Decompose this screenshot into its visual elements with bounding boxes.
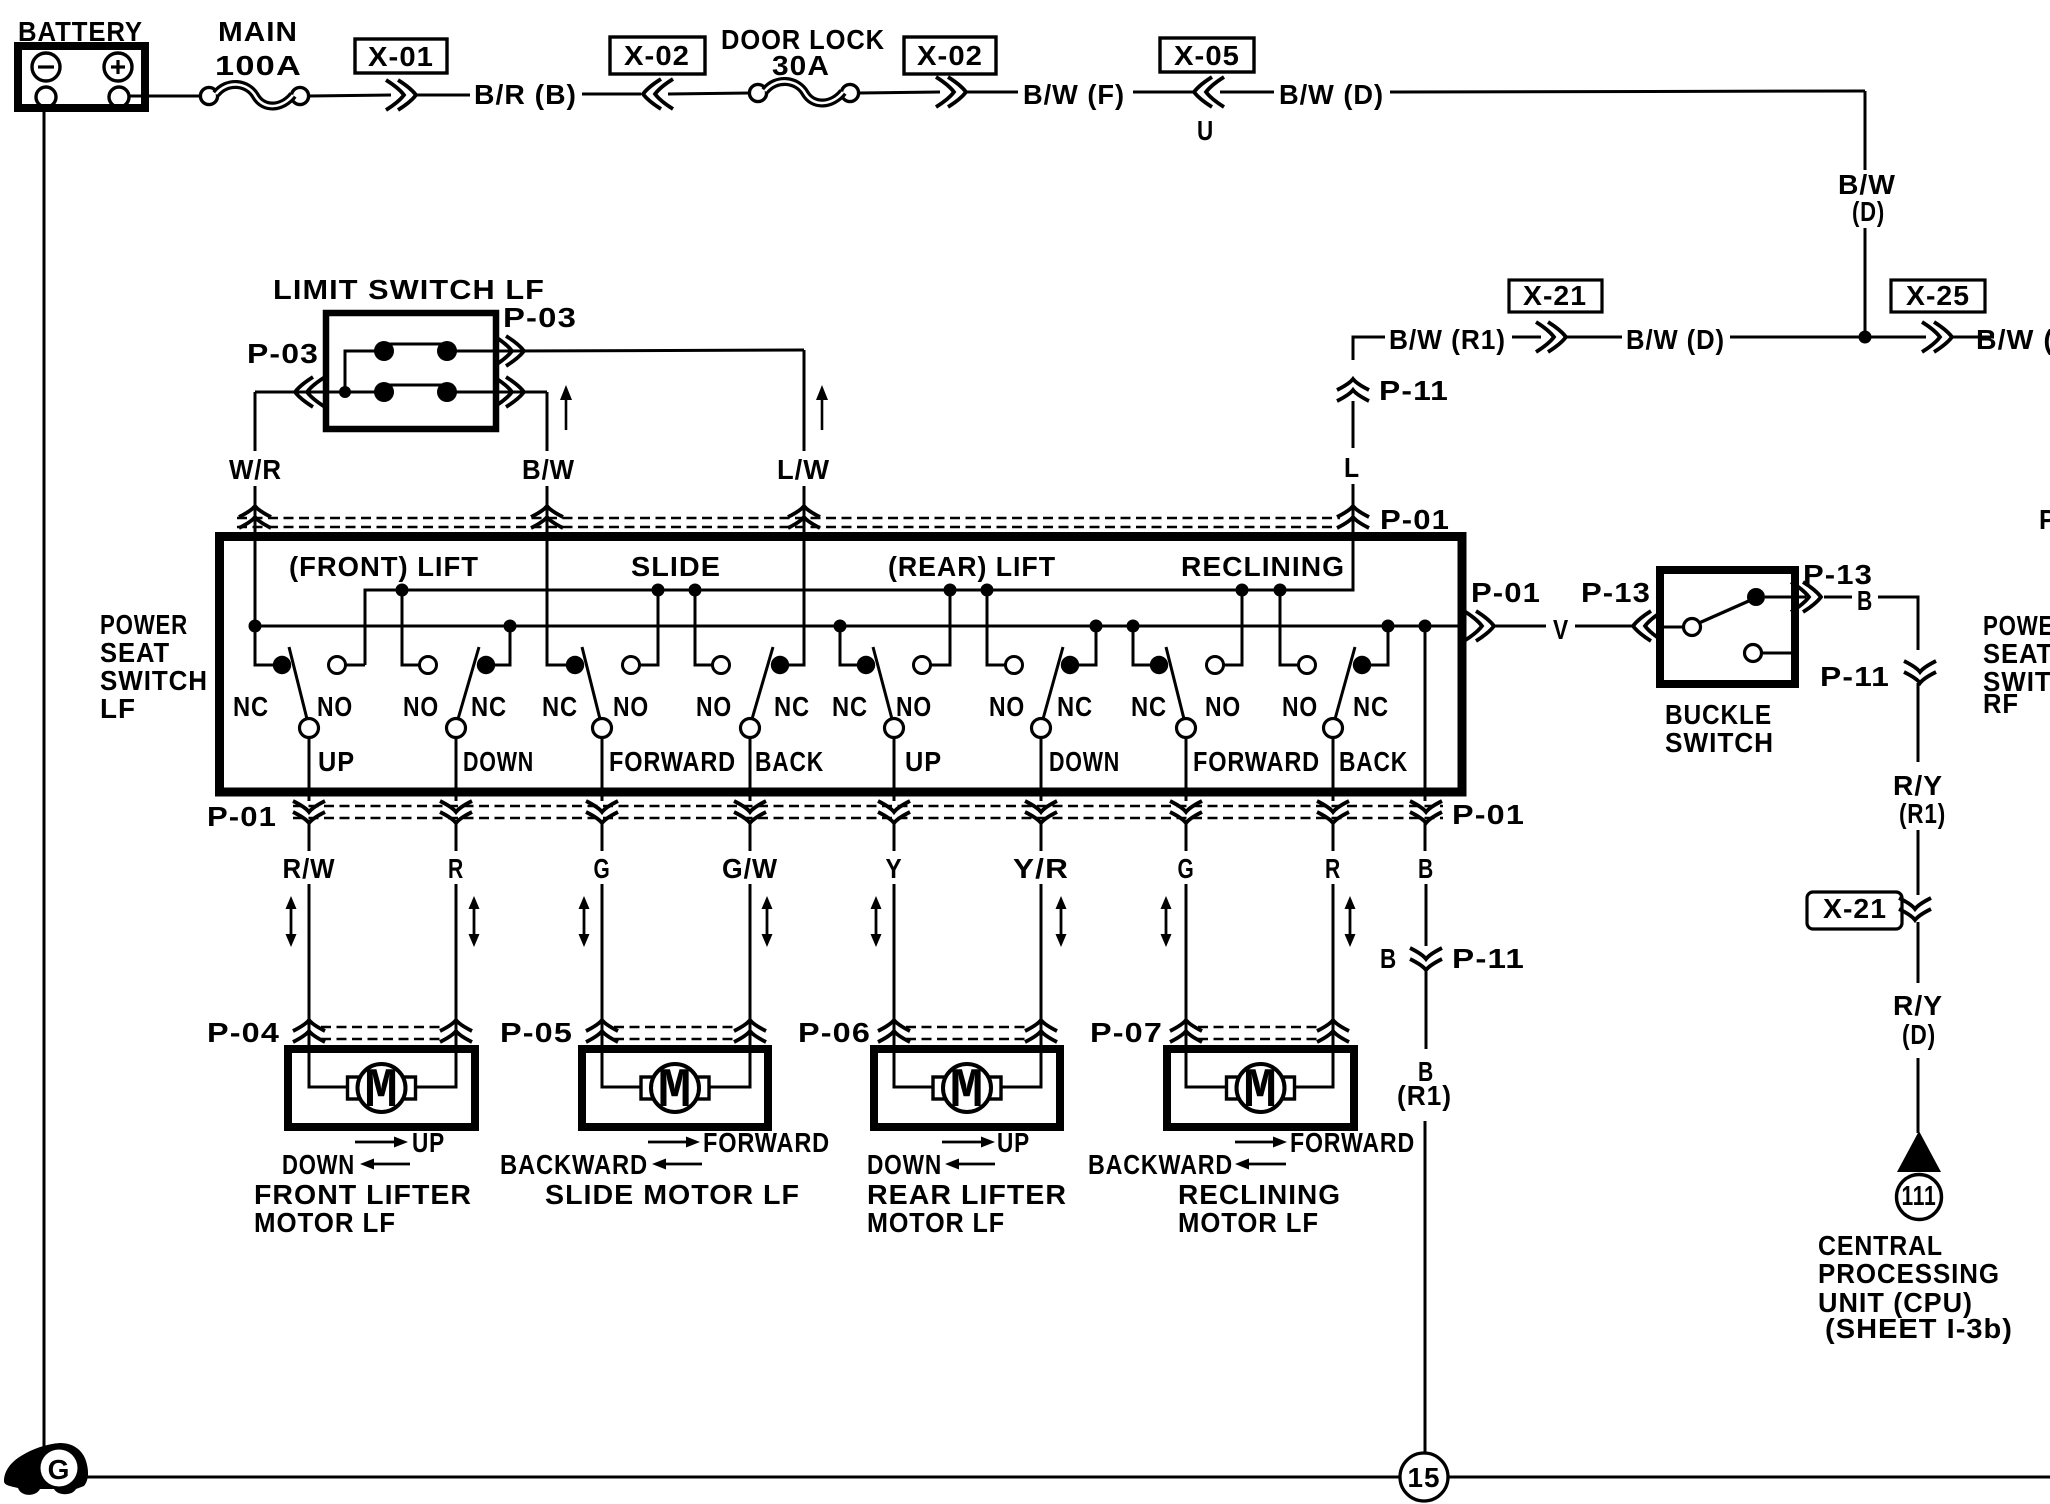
svg-text:P-07: P-07 [1090, 1017, 1163, 1048]
svg-text:SLIDE: SLIDE [631, 551, 721, 582]
svg-text:UP: UP [905, 746, 942, 777]
svg-text:P-01: P-01 [207, 801, 277, 832]
svg-text:NC: NC [1131, 691, 1167, 722]
svg-text:SEAT: SEAT [1983, 638, 2050, 669]
svg-text:X-25: X-25 [1906, 280, 1970, 311]
svg-text:NO: NO [403, 691, 439, 722]
svg-text:15: 15 [1408, 1462, 1441, 1493]
svg-text:B/W: B/W [522, 454, 575, 485]
svg-text:MOTOR LF: MOTOR LF [867, 1207, 1005, 1238]
svg-text:NC: NC [542, 691, 578, 722]
svg-text:R: R [448, 853, 464, 884]
svg-text:LF: LF [100, 693, 136, 724]
svg-text:V: V [1553, 614, 1569, 645]
svg-text:100A: 100A [215, 50, 302, 81]
svg-text:G/W: G/W [722, 853, 778, 884]
svg-text:P-03: P-03 [503, 302, 577, 333]
svg-text:P-01: P-01 [1452, 799, 1525, 830]
svg-text:SWITCH: SWITCH [100, 665, 208, 696]
svg-text:M: M [1243, 1059, 1278, 1123]
svg-text:DOWN: DOWN [463, 746, 534, 777]
svg-text:X-05: X-05 [1174, 40, 1240, 71]
svg-text:NO: NO [989, 691, 1025, 722]
svg-text:NC: NC [1057, 691, 1093, 722]
svg-text:NO: NO [696, 691, 732, 722]
svg-text:P-13: P-13 [1581, 577, 1651, 608]
svg-text:P-06: P-06 [798, 1017, 871, 1048]
svg-text:FORWARD: FORWARD [1290, 1127, 1415, 1158]
svg-text:R/W: R/W [283, 853, 336, 884]
svg-text:(FRONT) LIFT: (FRONT) LIFT [289, 551, 479, 582]
svg-text:NO: NO [317, 691, 353, 722]
svg-text:UP: UP [997, 1127, 1030, 1158]
svg-text:P: P [2039, 504, 2050, 535]
svg-text:NC: NC [832, 691, 868, 722]
svg-text:R/Y: R/Y [1893, 990, 1943, 1021]
svg-text:BUCKLE: BUCKLE [1665, 699, 1772, 730]
svg-text:B/W (D): B/W (D) [1279, 79, 1384, 110]
svg-text:POWER: POWER [1983, 610, 2050, 641]
svg-text:B/W (R1): B/W (R1) [1389, 324, 1506, 355]
svg-text:L: L [1344, 452, 1360, 483]
svg-text:X-21: X-21 [1823, 893, 1887, 924]
svg-text:NC: NC [233, 691, 269, 722]
svg-text:P-01: P-01 [1380, 504, 1450, 535]
svg-text:FORWARD: FORWARD [1193, 746, 1320, 777]
svg-text:MOTOR LF: MOTOR LF [254, 1207, 396, 1238]
svg-text:Y/R: Y/R [1013, 853, 1069, 884]
svg-text:DOWN: DOWN [282, 1149, 355, 1180]
svg-text:30A: 30A [772, 50, 830, 81]
svg-text:UP: UP [318, 746, 355, 777]
svg-text:RECLINING: RECLINING [1181, 551, 1345, 582]
svg-text:(SHEET I-3b): (SHEET I-3b) [1825, 1313, 2013, 1344]
svg-text:B: B [1380, 943, 1397, 974]
svg-text:111: 111 [1902, 1180, 1937, 1211]
svg-text:NC: NC [774, 691, 810, 722]
svg-text:MOTOR LF: MOTOR LF [1178, 1207, 1319, 1238]
svg-text:R: R [1325, 853, 1341, 884]
svg-text:(REAR) LIFT: (REAR) LIFT [888, 551, 1056, 582]
svg-text:LIMIT SWITCH LF: LIMIT SWITCH LF [273, 274, 545, 305]
svg-text:R/Y: R/Y [1893, 770, 1943, 801]
svg-text:POWER: POWER [100, 609, 188, 640]
svg-text:BACK: BACK [755, 746, 824, 777]
svg-text:U: U [1197, 115, 1214, 146]
svg-text:SEAT: SEAT [100, 637, 170, 668]
svg-text:(R1): (R1) [1899, 798, 1946, 829]
svg-text:M: M [658, 1059, 693, 1123]
svg-text:M: M [950, 1059, 985, 1123]
svg-text:DOWN: DOWN [1049, 746, 1120, 777]
svg-text:P-11: P-11 [1820, 661, 1890, 692]
svg-text:B: B [1857, 585, 1873, 616]
svg-text:P-05: P-05 [500, 1017, 573, 1048]
svg-text:RF: RF [1983, 688, 2019, 719]
svg-text:SWITCH: SWITCH [1665, 727, 1774, 758]
svg-text:W/R: W/R [229, 454, 282, 485]
svg-text:X-21: X-21 [1523, 280, 1587, 311]
svg-text:G: G [48, 1454, 71, 1485]
svg-text:(R1): (R1) [1397, 1080, 1452, 1111]
svg-text:NO: NO [613, 691, 649, 722]
svg-text:FRONT LIFTER: FRONT LIFTER [254, 1179, 472, 1210]
svg-text:UP: UP [412, 1127, 445, 1158]
svg-text:X-02: X-02 [624, 40, 690, 71]
svg-text:DOWN: DOWN [867, 1149, 942, 1180]
svg-text:FORWARD: FORWARD [609, 746, 736, 777]
svg-text:B/W (F): B/W (F) [1023, 79, 1125, 110]
svg-text:M: M [364, 1059, 399, 1123]
svg-text:SLIDE MOTOR LF: SLIDE MOTOR LF [545, 1179, 800, 1210]
svg-text:P-11: P-11 [1379, 375, 1449, 406]
svg-text:B/W (D): B/W (D) [1976, 324, 2050, 355]
svg-text:PROCESSING: PROCESSING [1818, 1258, 2000, 1289]
svg-text:NC: NC [471, 691, 507, 722]
svg-text:RECLINING: RECLINING [1178, 1179, 1341, 1210]
svg-text:FORWARD: FORWARD [703, 1127, 830, 1158]
svg-text:P-04: P-04 [207, 1017, 280, 1048]
svg-text:REAR LIFTER: REAR LIFTER [867, 1179, 1067, 1210]
svg-text:P-01: P-01 [1471, 577, 1541, 608]
svg-text:BACK: BACK [1339, 746, 1408, 777]
svg-text:B/W (D): B/W (D) [1626, 324, 1725, 355]
svg-text:NC: NC [1353, 691, 1389, 722]
svg-text:NO: NO [1205, 691, 1241, 722]
svg-text:CENTRAL: CENTRAL [1818, 1230, 1943, 1261]
svg-text:NO: NO [896, 691, 932, 722]
svg-text:X-01: X-01 [368, 41, 434, 72]
svg-text:P-03: P-03 [247, 338, 319, 369]
svg-text:(D): (D) [1852, 196, 1885, 227]
svg-text:(D): (D) [1902, 1019, 1936, 1050]
svg-text:NO: NO [1282, 691, 1318, 722]
svg-text:P-11: P-11 [1452, 943, 1525, 974]
svg-text:X-02: X-02 [917, 40, 983, 71]
svg-text:Y: Y [886, 853, 903, 884]
svg-text:MAIN: MAIN [218, 16, 298, 47]
svg-text:BACKWARD: BACKWARD [500, 1149, 648, 1180]
svg-text:B/R (B): B/R (B) [474, 79, 577, 110]
svg-text:G: G [594, 853, 611, 884]
svg-text:BACKWARD: BACKWARD [1088, 1149, 1233, 1180]
svg-text:L/W: L/W [777, 454, 830, 485]
svg-text:G: G [1178, 853, 1195, 884]
svg-text:B: B [1418, 853, 1434, 884]
